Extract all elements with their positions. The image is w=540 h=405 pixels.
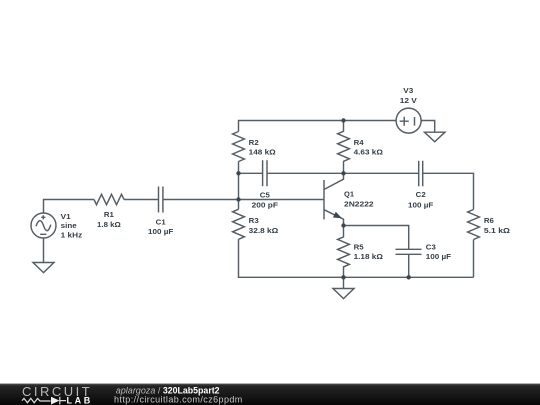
wire: R3 bottom lead down and along bottom ground rail: [239, 239, 474, 277]
label V1 sine 1 kHz: [61, 213, 83, 239]
label R5 1.18 kOhm: [354, 243, 384, 261]
label C2 100 uF: [408, 191, 434, 209]
svg-text:100 µF: 100 µF: [426, 253, 452, 261]
svg-text:R4: R4: [354, 139, 364, 147]
svg-text:R2: R2: [249, 139, 259, 147]
label R3 32.8 kOhm: [249, 217, 279, 235]
wire: V1 bottom terminal to ground: [43, 238, 45, 263]
svg-text:LAB: LAB: [67, 395, 93, 405]
svg-text:R3: R3: [249, 217, 259, 225]
svg-text:200 pF: 200 pF: [252, 202, 279, 210]
resistor R5: [338, 226, 350, 278]
svg-text:1.18 kΩ: 1.18 kΩ: [354, 253, 384, 261]
wire: C1 right plate to Q1 base (through node at x=238.5): [163, 199, 324, 201]
capacitor C3: [396, 249, 422, 254]
wire: C3 bottom plate to bottom ground rail: [408, 254, 410, 277]
node: R5 bottom on ground rail: [341, 275, 345, 279]
svg-text:C5: C5: [260, 191, 270, 199]
CircuitLab logo resistor zigzag: [22, 398, 51, 402]
wire: R6 bottom lead to bottom ground rail: [473, 240, 475, 278]
wire: base/divider node to C5 left plate: [239, 172, 263, 174]
wire: C2 right plate to R6 top lead: [423, 173, 474, 209]
svg-text:100 µF: 100 µF: [148, 228, 174, 236]
node: VCC rail / R4 junction: [341, 118, 345, 122]
svg-text:1 kHz: 1 kHz: [61, 231, 83, 239]
label R4 4.63 kOhm: [354, 139, 384, 157]
wire: emitter node right and down to C3 top plate: [344, 226, 409, 250]
svg-text:C2: C2: [416, 191, 426, 199]
node: base/divider junction with C5: [236, 171, 240, 175]
resistor R6: [468, 210, 480, 240]
resistor R3: [233, 209, 245, 239]
svg-text:12 V: 12 V: [400, 97, 417, 105]
wire: R2 bottom to base node: [238, 162, 240, 200]
svg-text:1.8 kΩ: 1.8 kΩ: [97, 221, 121, 229]
node: C3 bottom on ground rail: [407, 275, 411, 279]
transistor Q1 (NPN 2N2222) base bar: [323, 180, 325, 219]
CircuitLab logo diode: [51, 397, 66, 405]
node: emitter junction: [341, 223, 345, 227]
voltage source V3 (12 V DC): [396, 108, 421, 133]
svg-text:V1: V1: [61, 213, 71, 221]
voltage source V1 (sine): [31, 213, 56, 238]
wire: VCC top rail from divider bus to V3: [239, 121, 397, 132]
svg-text:R1: R1: [104, 211, 114, 219]
resistor R4: [338, 121, 350, 174]
label R1 1.8 kOhm: [97, 211, 121, 229]
svg-text:sine: sine: [61, 222, 77, 230]
wire: R1 right lead to C1 left plate: [124, 199, 159, 201]
svg-text:Q1: Q1: [344, 190, 354, 198]
capacitor C1: [159, 187, 163, 213]
label Q1 2N2222: [344, 190, 374, 208]
label R2 148 kOhm: [249, 139, 276, 157]
svg-text:C1: C1: [156, 219, 166, 227]
label C1 100 uF: [148, 219, 174, 237]
label R6 5.1 kOhm: [484, 217, 510, 235]
wire: V1 top terminal up and right to R1 left lead: [44, 200, 95, 214]
transistor Q1 emitter arrow: [333, 212, 342, 219]
node: collector junction: [341, 171, 345, 175]
ground (V3): [425, 132, 445, 142]
svg-text:R6: R6: [484, 217, 494, 225]
svg-text:http://circuitlab.com/cz6ppdm: http://circuitlab.com/cz6ppdm: [114, 395, 243, 405]
svg-text:5.1 kΩ: 5.1 kΩ: [484, 227, 510, 235]
transistor Q1 collector lead: [324, 173, 344, 189]
svg-text:2N2222: 2N2222: [344, 201, 374, 209]
label V3 12 V: [400, 87, 417, 105]
ground (below V1): [33, 263, 54, 273]
svg-text:148 kΩ: 148 kΩ: [249, 149, 276, 157]
wire: C5 right plate to collector node and on to C2 left plate: [267, 172, 419, 174]
label C3 100 uF: [426, 243, 452, 261]
node: base node at input wire: [236, 197, 240, 201]
transistor Q1 emitter lead: [324, 210, 344, 226]
svg-text:C3: C3: [426, 243, 436, 251]
resistor R2: [233, 132, 245, 162]
svg-text:V3: V3: [403, 87, 413, 95]
svg-text:4.63 kΩ: 4.63 kΩ: [354, 149, 384, 157]
svg-text:R5: R5: [354, 243, 364, 251]
ground (bottom rail): [333, 277, 354, 298]
svg-text:100 µF: 100 µF: [408, 202, 434, 210]
capacitor C2: [419, 161, 423, 187]
svg-text:32.8 kΩ: 32.8 kΩ: [249, 227, 279, 235]
capacitor C5: [263, 160, 267, 186]
wire: base node down to R3 top lead: [238, 200, 240, 210]
wire: V3 negative terminal to ground: [421, 121, 435, 133]
resistor R1: [94, 194, 124, 204]
label C5 200 pF: [252, 191, 279, 209]
